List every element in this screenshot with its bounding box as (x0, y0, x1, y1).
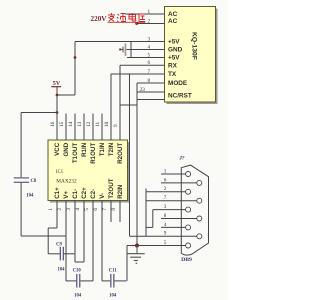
svg-text:C11: C11 (109, 269, 117, 274)
MAX232 pin number 1 (48, 208, 54, 211)
wire C11 right lead (114, 280, 126, 282)
capacitor C9 (60, 247, 64, 261)
svg-text:12: 12 (86, 121, 92, 127)
svg-text:KQ-130F: KQ-130F (191, 32, 198, 60)
label C8 value 104 (26, 194, 34, 199)
junction dot on AC pin2 wire (135, 22, 138, 25)
svg-text:5: 5 (148, 52, 151, 58)
MAX232 pin label V- (99, 193, 106, 199)
DB9 pin 4 number (164, 222, 167, 228)
svg-text:4: 4 (75, 208, 81, 211)
wire left rail to V+ (21, 235, 66, 237)
svg-text:104: 104 (109, 294, 117, 299)
svg-text:2: 2 (148, 18, 151, 24)
wire C1+ vertical (47, 228, 49, 254)
svg-text:8: 8 (148, 78, 151, 84)
label C11 value 104 (109, 294, 117, 299)
KQ-130F pin number 4 (148, 44, 151, 50)
wire C11 left lead (102, 280, 110, 282)
DB9 pin 2 wire (146, 191, 186, 193)
wire C10 left lead (66, 280, 76, 282)
svg-text:104: 104 (26, 194, 34, 199)
wire TX trunk (110, 74, 112, 140)
KQ-130F pin label AC (1) (168, 11, 178, 18)
DB9 pin 3 wire (153, 209, 186, 211)
svg-text:6: 6 (164, 177, 167, 183)
wire RX-MODE link (120, 104, 137, 106)
MAX232 pin 1 stub (56, 201, 58, 229)
wire left rail upper (20, 113, 22, 178)
net label underline (108, 21, 146, 23)
wire NC/RST trunk (129, 74, 131, 236)
connector designator J? (178, 155, 185, 161)
KQ-130F pin number 1 (148, 9, 151, 15)
MAX232 pin number 5 (84, 208, 90, 211)
MAX232 pin number 6 (93, 208, 99, 211)
MAX232 pin 4 stub (83, 201, 85, 263)
svg-text:3: 3 (66, 208, 72, 211)
svg-text:5: 5 (84, 208, 90, 211)
net label Chinese AC-voltage text (108, 13, 145, 22)
DB9 pin 8 number (164, 213, 167, 219)
junction dot +5V pin5 branch (74, 56, 77, 59)
MAX232 pin label T2OUT (108, 178, 115, 199)
svg-text:8: 8 (111, 208, 117, 211)
svg-text:DB9: DB9 (181, 257, 192, 263)
KQ-130F pin label +5V (3) (168, 39, 180, 46)
MAX232 pin 8 stub (119, 201, 121, 223)
svg-text:R1IN: R1IN (81, 142, 88, 157)
svg-text:T1OUT: T1OUT (72, 143, 79, 164)
svg-text:104: 104 (74, 294, 82, 299)
DB9 pin 4 circle (186, 225, 191, 230)
wire left rail lower (20, 183, 22, 236)
svg-text:5: 5 (164, 240, 167, 246)
svg-text:15: 15 (59, 121, 65, 127)
svg-text:3: 3 (148, 36, 151, 42)
capacitor C10 (76, 274, 80, 288)
KQ-130F pin number 3 (148, 36, 151, 42)
DB9 pin 9 wire (130, 235, 197, 237)
label C10 (73, 269, 82, 274)
label C9 (56, 242, 62, 247)
MAX232 pin label R2IN (117, 184, 124, 199)
svg-text:+5V: +5V (168, 39, 180, 46)
connector J? DB9 body (181, 165, 208, 255)
svg-text:C1-: C1- (72, 189, 79, 199)
MAX232 pin label R2OUT (117, 143, 124, 164)
DB9 pin 8 circle (197, 216, 202, 221)
svg-text:C8: C8 (31, 179, 37, 184)
svg-text:R1OUT: R1OUT (90, 143, 97, 164)
power port 5V symbol (51, 80, 61, 96)
svg-text:R2OUT: R2OUT (117, 143, 124, 164)
DB9 pin 7 wire (146, 200, 197, 202)
DB9 pin 5 number (164, 240, 167, 246)
MAX232 pin number 3 (66, 208, 72, 211)
svg-text:11: 11 (95, 122, 101, 127)
svg-text:NC/RST: NC/RST (168, 93, 192, 100)
IC IC1 MAX232 body (48, 140, 130, 203)
MAX232 pin number 4 (75, 208, 81, 211)
svg-text:4: 4 (148, 44, 151, 50)
ground symbol (127, 246, 145, 264)
KQ-130F pin 23 wire (137, 91, 165, 93)
svg-text:104: 104 (57, 268, 65, 273)
svg-text:T2OUT: T2OUT (108, 178, 115, 199)
svg-text:1: 1 (148, 9, 151, 15)
DB9 pin 7 circle (197, 198, 202, 203)
wire V+ column to C10 (65, 236, 67, 281)
connector label DB9 (181, 257, 192, 263)
svg-text:T2IN: T2IN (108, 142, 115, 156)
svg-text:V+: V+ (63, 191, 70, 199)
DB9 pin 6 number (164, 177, 167, 183)
svg-text:C2+: C2+ (81, 187, 88, 199)
MAX232 pin label V+ (63, 191, 70, 199)
MAX232 pin label C1+ (54, 187, 61, 199)
MAX232 pin 7 stub (110, 201, 112, 223)
MAX232 pin label C1- (72, 189, 79, 199)
svg-text:T1IN: T1IN (99, 142, 106, 156)
DB9 pin 6 wire (161, 182, 197, 184)
svg-text:2: 2 (57, 208, 63, 211)
wire C1- to C2+ bridge (75, 253, 84, 262)
DB9 pin 5 wire (137, 245, 186, 247)
svg-text:5V: 5V (53, 80, 61, 87)
DB9 pin 7 number (164, 195, 167, 201)
label C11 (109, 269, 117, 274)
junction dot 5V left-rail branch (56, 111, 59, 114)
DB9 pin 1 number (164, 168, 167, 174)
svg-text:TX: TX (168, 71, 177, 78)
svg-text:9: 9 (113, 124, 119, 127)
svg-text:IC1: IC1 (56, 170, 64, 175)
KQ-130F pin label MODE (8) (168, 80, 188, 87)
svg-text:C10: C10 (73, 269, 82, 274)
svg-text:220V: 220V (91, 15, 108, 23)
svg-text:13: 13 (77, 121, 83, 127)
KQ-130F pin label GND (4) (168, 47, 183, 54)
KQ-130F pin number 7 (148, 69, 151, 75)
MAX232 pin number 12 (86, 121, 92, 127)
svg-text:7: 7 (148, 69, 151, 75)
wire C9 left lead (48, 253, 60, 255)
svg-text:RX: RX (168, 62, 178, 69)
KQ-130F pin 4 wire (126, 49, 164, 51)
wire ladder jog (146, 210, 153, 228)
MAX232 pin 3 stub (74, 201, 76, 254)
svg-text:GND: GND (63, 142, 70, 156)
MAX232 pin 11 stub (101, 114, 103, 141)
wire C9 right lead (64, 253, 75, 255)
svg-text:6: 6 (93, 208, 99, 211)
wire +5V tie pins3-5 (130, 42, 132, 58)
DB9 pin 9 circle (197, 234, 202, 239)
svg-text:9: 9 (164, 231, 167, 237)
svg-text:6: 6 (148, 60, 151, 66)
MAX232 pin 13 stub (83, 114, 85, 141)
MAX232 pin 15 stub (65, 114, 67, 141)
KQ-130F pin 8 wire (137, 82, 165, 84)
svg-text:C9: C9 (56, 242, 62, 247)
MAX232 pin 12 stub (92, 114, 94, 141)
KQ-130F pin 3 wire (75, 41, 165, 43)
MAX232 pin number 8 (111, 208, 117, 211)
wire 5V to +5V rail (57, 94, 75, 96)
wire MODE-ground trunk (136, 83, 138, 246)
DB9 pin 8 wire (161, 218, 197, 220)
DB9 pin 5 circle (186, 243, 191, 248)
DB9 pin 2 circle (186, 189, 191, 194)
wire +5V vertical from pin3 (74, 42, 76, 96)
svg-text:1: 1 (164, 168, 167, 174)
MAX232 pin number 16 (50, 121, 56, 127)
DB9 pin 6 circle (197, 180, 202, 185)
KQ-130F pin label AC (2) (168, 18, 178, 25)
wire DB9 ladder vertical (145, 192, 147, 237)
MAX232 pin number 14 (68, 121, 74, 127)
MAX232 pin label VCC (54, 142, 61, 156)
svg-text:10: 10 (104, 121, 110, 127)
KQ-130F pin 6 wire (120, 64, 165, 66)
svg-text:J?: J? (178, 155, 185, 161)
MAX232 pin label C2+ (81, 187, 88, 199)
KQ-130F pin 5 wire (127, 57, 165, 59)
label C9 value 104 (57, 268, 65, 273)
svg-text:+5V: +5V (168, 55, 180, 62)
capacitor C8 (14, 177, 29, 183)
MAX232 pin 14 stub (74, 114, 76, 141)
KQ-130F pin number 8 (148, 78, 151, 84)
svg-text:4: 4 (164, 222, 167, 228)
DB9 pin 1 wire (161, 173, 186, 175)
MAX232 pin label C2- (90, 189, 97, 199)
label C8 (31, 179, 37, 184)
svg-text:7: 7 (164, 195, 167, 201)
KQ-130F pin 22 wire (137, 99, 165, 101)
wire RX trunk (119, 65, 121, 140)
DB9 pin 3 number (164, 204, 167, 210)
svg-text:23: 23 (140, 87, 146, 93)
svg-text:V-: V- (99, 193, 106, 199)
svg-text:3: 3 (164, 204, 167, 210)
MAX232 pin label T1OUT (72, 143, 79, 164)
KQ-130F pin 1 wire (125, 13, 164, 15)
svg-text:GND: GND (168, 47, 183, 54)
MAX232 pin number 15 (59, 121, 65, 127)
MAX232 pin number 2 (57, 208, 63, 211)
svg-text:C2-: C2- (90, 189, 97, 199)
capacitor C11 (110, 274, 114, 288)
svg-text:16: 16 (50, 121, 56, 127)
svg-text:1: 1 (48, 208, 54, 211)
KQ-130F pin 2 wire (136, 23, 165, 25)
svg-text:MODE: MODE (168, 80, 188, 87)
svg-text:7: 7 (102, 208, 108, 211)
DB9 pin 4 wire (161, 226, 186, 228)
MAX232 pin 2 stub (65, 201, 67, 237)
KQ-130F pin number 23 (140, 87, 146, 93)
net label 220V (91, 15, 108, 23)
MAX232 pin number 13 (77, 121, 83, 127)
svg-text:14: 14 (68, 121, 74, 127)
MAX232 pin number 11 (95, 122, 101, 127)
KQ-130F pin label RX (6) (168, 62, 178, 69)
KQ-130F pin 7 wire (111, 73, 165, 75)
DB9 pin 2 number (164, 186, 167, 192)
label C10 value 104 (74, 294, 82, 299)
junction dot ground node (135, 244, 139, 248)
KQ-130F pin number 6 (148, 60, 151, 66)
IC IC1 name MAX232 (56, 179, 77, 185)
DB9 pin 1 circle (186, 172, 191, 177)
MAX232 pin label T2IN (108, 142, 115, 156)
svg-text:C1+: C1+ (54, 187, 61, 199)
KQ-130F pin number 5 (148, 52, 151, 58)
DB9 pin 3 circle (186, 207, 191, 212)
MAX232 pin label R1IN (81, 142, 88, 157)
MAX232 pin label R1OUT (90, 143, 97, 164)
DB9 pin 9 number (164, 231, 167, 237)
IC U2 name KQ-130F (191, 32, 198, 60)
MAX232 pin 6 stub (101, 201, 103, 281)
KQ-130F pin number 2 (148, 18, 151, 24)
wire C11 riser (127, 246, 137, 281)
svg-text:VCC: VCC (54, 142, 61, 156)
MAX232 pin 5 stub (92, 201, 94, 281)
IC U2 KQ-130F body (165, 7, 218, 105)
wire left rail horizontal (21, 112, 57, 114)
MAX232 pin label GND (63, 142, 70, 156)
wire C1+ corner (48, 227, 57, 229)
MAX232 pin label T1IN (99, 142, 106, 156)
KQ-130F pin label +5V (5) (168, 55, 180, 62)
svg-text:MAX232: MAX232 (56, 179, 77, 185)
wire C10 right lead (80, 280, 93, 282)
svg-text:R2IN: R2IN (117, 184, 124, 199)
svg-text:AC: AC (168, 18, 178, 25)
svg-text:8: 8 (164, 213, 167, 219)
IC IC1 designator (56, 170, 64, 175)
DB9 pin2 riser stub (145, 189, 147, 192)
KQ-130F pin label TX (7) (168, 71, 177, 78)
wire 5V down to VCC (56, 95, 58, 140)
MAX232 pin number 7 (102, 208, 108, 211)
svg-text:2: 2 (164, 186, 167, 192)
capacitor on GND pin (KQ) (119, 44, 126, 56)
MAX232 pin number 10 (104, 121, 110, 127)
KQ-130F pin label NC/RST (23) (168, 93, 192, 100)
MAX232 pin number 9 (113, 124, 119, 127)
